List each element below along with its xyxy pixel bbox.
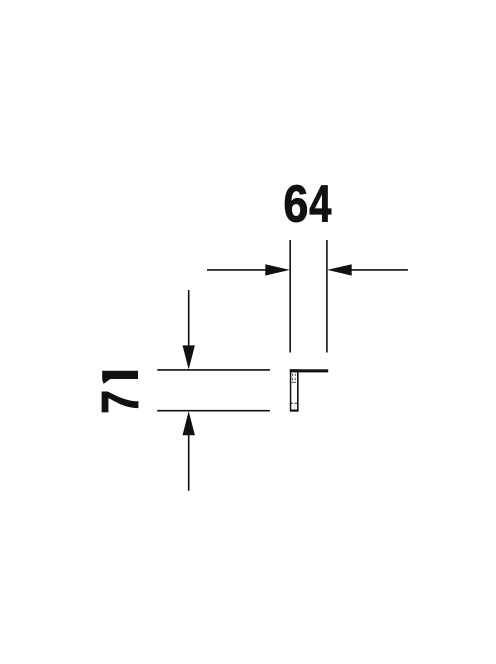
svg-text:4: 4 [309,175,331,233]
svg-text:7: 7 [92,390,150,414]
svg-text:6: 6 [283,175,308,233]
